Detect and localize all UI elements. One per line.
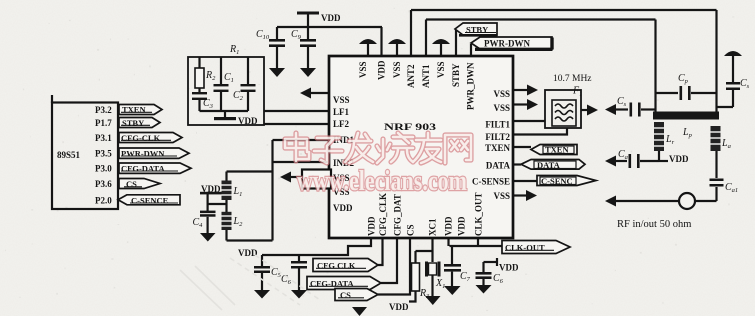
svg-text:VSS: VSS xyxy=(493,89,510,99)
svg-text:VDD: VDD xyxy=(201,184,221,194)
svg-text:VSS: VSS xyxy=(436,61,446,78)
svg-text:VSS: VSS xyxy=(493,103,510,113)
svg-text:VDD: VDD xyxy=(377,60,387,80)
svg-text:ANT1: ANT1 xyxy=(421,64,431,88)
svg-text:VDD: VDD xyxy=(321,13,341,23)
svg-text:NRF 903: NRF 903 xyxy=(384,122,437,132)
svg-text:LF2: LF2 xyxy=(333,119,350,129)
svg-text:C-SENC: C-SENC xyxy=(541,176,573,186)
svg-text:STBY: STBY xyxy=(122,118,144,128)
svg-text:VSS: VSS xyxy=(493,191,510,201)
svg-text:VDD: VDD xyxy=(457,216,467,236)
svg-text:89S51: 89S51 xyxy=(57,150,81,160)
svg-text:CFG-DATA: CFG-DATA xyxy=(121,164,165,174)
svg-text:VSS: VSS xyxy=(358,61,368,78)
svg-text:VDD: VDD xyxy=(389,302,409,312)
svg-text:C-SENSE: C-SENSE xyxy=(472,177,510,187)
svg-text:VSS: VSS xyxy=(392,61,402,78)
svg-text:TXEN: TXEN xyxy=(485,143,511,153)
svg-text:VDD: VDD xyxy=(367,216,377,236)
svg-text:FILT2: FILT2 xyxy=(485,132,510,142)
svg-text:PWR_DWN: PWR_DWN xyxy=(466,62,476,110)
svg-text:XC1: XC1 xyxy=(428,218,438,236)
svg-text:CFG_DAT: CFG_DAT xyxy=(393,194,403,236)
svg-text:FILT1: FILT1 xyxy=(485,120,510,130)
svg-text:P3.5: P3.5 xyxy=(95,149,112,159)
svg-text:STBY: STBY xyxy=(451,63,461,87)
svg-text:CFG_CLK: CFG_CLK xyxy=(378,193,388,236)
svg-text:CS: CS xyxy=(340,290,351,300)
svg-text:VDD: VDD xyxy=(333,203,353,213)
svg-text:CLK-OUT: CLK-OUT xyxy=(505,243,545,253)
svg-text:LF1: LF1 xyxy=(333,107,350,117)
svg-text:DATA: DATA xyxy=(486,161,511,171)
svg-text:CLK_OUT: CLK_OUT xyxy=(474,192,484,236)
svg-text:VDD: VDD xyxy=(499,263,519,273)
svg-text:10.7 MHz: 10.7 MHz xyxy=(553,74,592,84)
svg-text:CS: CS xyxy=(126,179,137,189)
svg-text:P3.6: P3.6 xyxy=(95,179,112,189)
svg-text:RF in/out 50 ohm: RF in/out 50 ohm xyxy=(617,219,691,230)
svg-text:PWR-DWN: PWR-DWN xyxy=(484,39,530,49)
svg-text:C-SENCE: C-SENCE xyxy=(131,195,169,205)
svg-text:CFG-CLK: CFG-CLK xyxy=(121,133,161,143)
svg-text:VDD: VDD xyxy=(444,216,454,236)
svg-text:P3.1: P3.1 xyxy=(95,133,112,143)
svg-text:VDD: VDD xyxy=(238,248,258,258)
svg-text:CFG-DATA: CFG-DATA xyxy=(310,279,354,289)
svg-text:P2.0: P2.0 xyxy=(95,196,112,206)
svg-text:P3.2: P3.2 xyxy=(95,105,112,115)
svg-text:CS: CS xyxy=(406,224,416,236)
svg-text:VSS: VSS xyxy=(333,95,350,105)
svg-text:TXEN: TXEN xyxy=(545,145,569,155)
svg-text:TXEN: TXEN xyxy=(122,105,146,115)
svg-text:CFG CLK: CFG CLK xyxy=(317,261,356,271)
svg-text:PWR-DWN: PWR-DWN xyxy=(121,149,165,159)
svg-text:ANT2: ANT2 xyxy=(406,64,416,88)
svg-text:P1.7: P1.7 xyxy=(95,118,112,128)
svg-text:DATA: DATA xyxy=(537,160,561,170)
svg-text:VDD: VDD xyxy=(238,116,258,126)
svg-text:P3.0: P3.0 xyxy=(95,164,112,174)
svg-text:VDD: VDD xyxy=(669,154,689,164)
